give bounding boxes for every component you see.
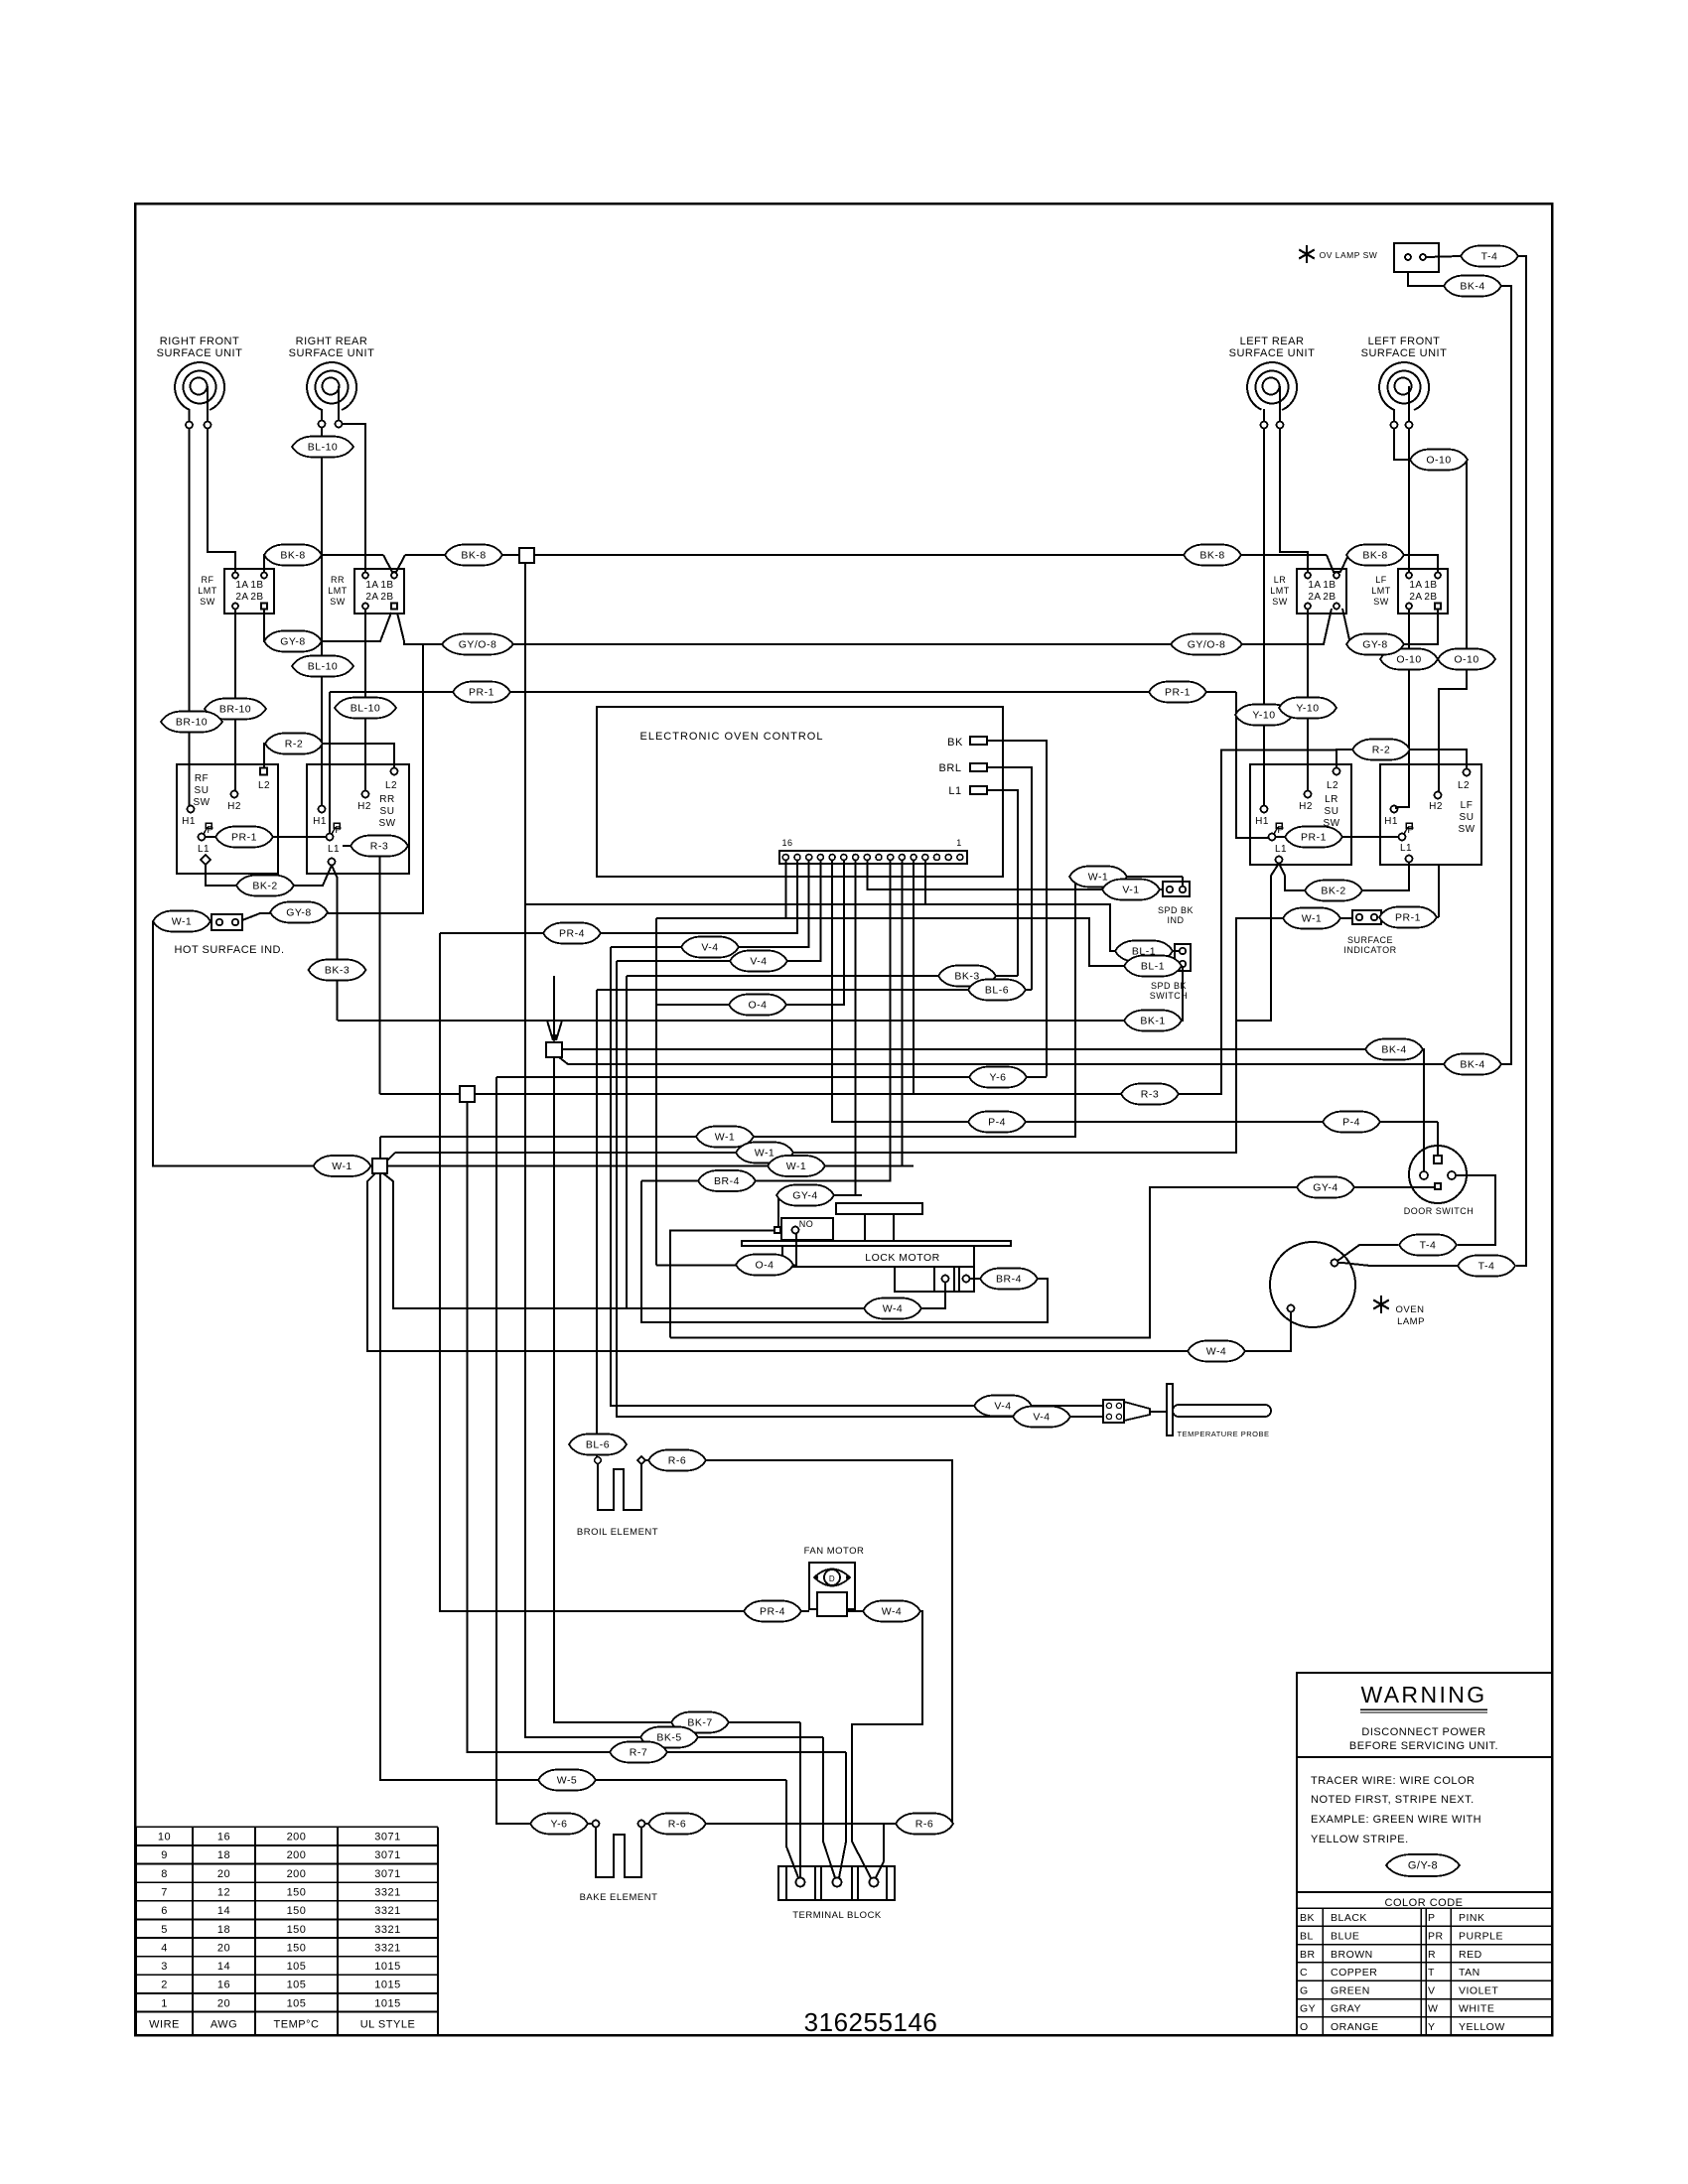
svg-text:3: 3 bbox=[161, 1961, 168, 1973]
svg-text:1B: 1B bbox=[1424, 580, 1437, 591]
wire bbox=[263, 743, 265, 746]
wire BRL pad to BL-6 broil bbox=[987, 767, 1032, 990]
svg-text:9: 9 bbox=[161, 1849, 168, 1861]
svg-text:W-4: W-4 bbox=[882, 1606, 903, 1618]
svg-text:1015: 1015 bbox=[374, 1961, 400, 1973]
svg-text:GY/O-8: GY/O-8 bbox=[459, 639, 497, 651]
wire diagonal into junction J2 bbox=[547, 1021, 553, 1040]
wire BL-1 from bus bbox=[525, 904, 1179, 951]
svg-text:BLUE: BLUE bbox=[1331, 1930, 1359, 1942]
svg-text:W-1: W-1 bbox=[755, 1148, 775, 1160]
wire label BL-10 bbox=[292, 437, 353, 458]
svg-text:SU: SU bbox=[380, 806, 395, 817]
svg-text:TAN: TAN bbox=[1459, 1967, 1480, 1979]
wire pin 11 O-4 bbox=[656, 861, 844, 1006]
wire BL-6 to broil element bbox=[597, 990, 598, 1456]
svg-text:RR: RR bbox=[379, 794, 394, 805]
wire BK-4 drop to door switch bbox=[1423, 1049, 1424, 1170]
wire pin W-1 bbox=[901, 861, 903, 1166]
svg-text:P: P bbox=[1277, 825, 1284, 836]
wire V-4 to temperature probe bbox=[611, 947, 1103, 1406]
wire W-4 to lock motor bbox=[383, 1173, 945, 1308]
wire label GY/O-8 bbox=[1171, 634, 1242, 655]
svg-text:BK-2: BK-2 bbox=[1321, 886, 1345, 897]
wire bbox=[1404, 827, 1408, 834]
svg-text:GY-8: GY-8 bbox=[1362, 639, 1388, 651]
wire label BK-5 bbox=[640, 1727, 698, 1748]
EOC 16-pin connector strip bbox=[779, 838, 967, 864]
fan motor B1 bbox=[804, 1546, 865, 1616]
wire bbox=[254, 1827, 256, 2035]
svg-text:2: 2 bbox=[161, 1979, 168, 1991]
svg-text:RIGHT REAR: RIGHT REAR bbox=[296, 336, 368, 347]
wire label W-1 bbox=[736, 1143, 793, 1163]
svg-text:TEMPERATURE PROBE: TEMPERATURE PROBE bbox=[1178, 1430, 1270, 1438]
wire BK-1 to SPD BK switch bbox=[338, 968, 1183, 1022]
svg-text:1: 1 bbox=[956, 838, 962, 848]
svg-text:BL-10: BL-10 bbox=[308, 442, 339, 454]
svg-text:LAMP: LAMP bbox=[1397, 1316, 1425, 1327]
svg-text:W-1: W-1 bbox=[332, 1160, 352, 1172]
svg-text:W-5: W-5 bbox=[557, 1775, 578, 1787]
wire label W-1 bbox=[1069, 867, 1127, 887]
junction J2 (black) bbox=[546, 1042, 562, 1057]
broil element bbox=[577, 1456, 658, 1538]
wire label BR-4 bbox=[980, 1269, 1038, 1290]
svg-text:L2: L2 bbox=[258, 780, 270, 791]
svg-text:BK-5: BK-5 bbox=[656, 1732, 681, 1744]
svg-text:L1: L1 bbox=[1275, 844, 1287, 855]
svg-text:RF: RF bbox=[195, 773, 209, 784]
wire bbox=[1297, 1756, 1552, 1758]
svg-text:3321: 3321 bbox=[374, 1887, 400, 1899]
svg-text:SURFACE UNIT: SURFACE UNIT bbox=[1229, 347, 1316, 359]
wire label W-4 bbox=[863, 1601, 920, 1622]
wire label V-1 bbox=[1102, 880, 1160, 900]
wire R-7 into terminal 2 bbox=[839, 1752, 846, 1878]
svg-text:PR-1: PR-1 bbox=[1395, 912, 1421, 924]
wire bbox=[136, 1919, 438, 1921]
svg-text:BK-3: BK-3 bbox=[954, 971, 979, 983]
surface unit coil RR bbox=[289, 336, 375, 410]
svg-text:18: 18 bbox=[217, 1849, 230, 1861]
wire label P-4 bbox=[968, 1112, 1026, 1133]
wire label P-4 bbox=[1323, 1112, 1380, 1133]
wire BK-7 drop bbox=[799, 1722, 801, 1877]
svg-text:R-3: R-3 bbox=[1141, 1089, 1159, 1101]
wire label BR-10 bbox=[161, 712, 222, 733]
wire label W-5 bbox=[538, 1770, 596, 1791]
wire BK-3 RR L1 down bbox=[332, 866, 338, 1022]
wire P-4 into door switch bbox=[1437, 1122, 1439, 1155]
wire BR-4 lock motor loop bbox=[641, 1181, 1048, 1323]
lock motor assembly bbox=[742, 1203, 1011, 1292]
wire BK-4 to oven lamp switch loop bbox=[559, 1057, 1444, 1064]
wire bbox=[864, 1214, 866, 1241]
wire label GY/O-8 bbox=[442, 634, 513, 655]
svg-text:R-6: R-6 bbox=[668, 1455, 686, 1467]
wire bbox=[953, 1267, 955, 1292]
wire bbox=[136, 1844, 438, 1846]
wire BK-7 from junction to terminal block bbox=[554, 1057, 800, 1722]
wire label BK-4 bbox=[1365, 1039, 1423, 1060]
wire gauge table bbox=[136, 1827, 438, 2035]
wire label W-1 bbox=[696, 1127, 754, 1148]
svg-text:105: 105 bbox=[287, 1979, 307, 1991]
svg-text:BK-8: BK-8 bbox=[1199, 550, 1224, 562]
wire Y-6 bus bbox=[496, 1076, 1047, 1078]
surface unit coil RF bbox=[157, 336, 243, 410]
svg-text:1A: 1A bbox=[1308, 580, 1321, 591]
svg-text:COLOR CODE: COLOR CODE bbox=[1385, 1897, 1464, 1909]
svg-text:200: 200 bbox=[287, 1849, 307, 1861]
svg-text:LMT: LMT bbox=[328, 586, 348, 596]
svg-text:L1: L1 bbox=[948, 785, 961, 797]
svg-text:1B: 1B bbox=[380, 580, 393, 591]
wire R-2 LR L2 to LF L2 bbox=[1336, 750, 1467, 769]
wire label BK-8 bbox=[1184, 545, 1241, 566]
svg-text:2A: 2A bbox=[1409, 592, 1422, 603]
wire LR unit left terminal to H1 bbox=[1263, 429, 1265, 806]
svg-text:SPD BK: SPD BK bbox=[1158, 905, 1194, 915]
wire label GY-8 bbox=[270, 902, 328, 923]
wire O-4 to lock NO switch bbox=[656, 1234, 796, 1266]
svg-text:Y: Y bbox=[1428, 2021, 1436, 2033]
wire bus riser bbox=[655, 918, 657, 1266]
wire W-4 to oven lamp bbox=[367, 1173, 1291, 1351]
svg-text:DOOR SWITCH: DOOR SWITCH bbox=[1404, 1206, 1475, 1216]
wire bbox=[1297, 1891, 1552, 1893]
wire bbox=[136, 2011, 438, 2013]
wire BK-2 LR L1 to LF L1 bbox=[1279, 863, 1409, 891]
svg-text:NOTED FIRST, STRIPE NEXT.: NOTED FIRST, STRIPE NEXT. bbox=[1311, 1794, 1475, 1806]
surface indicator bbox=[1343, 910, 1396, 955]
wire label BL-1 bbox=[1124, 956, 1182, 977]
svg-text:L2: L2 bbox=[1458, 780, 1470, 791]
svg-text:H2: H2 bbox=[357, 801, 371, 812]
wire bbox=[192, 1827, 194, 2035]
wire label O-4 bbox=[736, 1255, 793, 1276]
wire GY-8 RF LMT 2B to RR LMT 2B bbox=[264, 610, 391, 642]
svg-text:SURFACE: SURFACE bbox=[1347, 935, 1393, 945]
svg-text:L1: L1 bbox=[198, 844, 210, 855]
junction J3 (red) bbox=[460, 1086, 475, 1102]
surface unit switch LR SU SW bbox=[1250, 764, 1351, 865]
wire W-1 into SPD BK IND bbox=[1182, 877, 1184, 887]
wire label R-7 bbox=[610, 1742, 667, 1763]
svg-text:H1: H1 bbox=[182, 816, 196, 827]
wire label W-1 bbox=[314, 1156, 371, 1176]
junction J4 (white) bbox=[372, 1159, 387, 1173]
wire bbox=[1297, 2034, 1552, 2036]
svg-text:OVEN: OVEN bbox=[1396, 1304, 1425, 1315]
svg-text:BK-4: BK-4 bbox=[1381, 1044, 1406, 1056]
svg-text:3071: 3071 bbox=[374, 1849, 400, 1861]
svg-text:1A: 1A bbox=[235, 580, 248, 591]
svg-text:LEFT REAR: LEFT REAR bbox=[1240, 336, 1305, 347]
surface unit coil LR bbox=[1229, 336, 1316, 410]
wire bbox=[893, 1214, 895, 1241]
svg-text:10: 10 bbox=[158, 1832, 171, 1843]
svg-text:200: 200 bbox=[287, 1868, 307, 1880]
svg-text:BL: BL bbox=[1300, 1930, 1314, 1942]
wire label PR-4 bbox=[744, 1601, 801, 1622]
wire T-4 right riser bbox=[1516, 256, 1526, 1266]
wire LR unit right terminal to LMT 1A bbox=[1280, 429, 1308, 573]
wire bbox=[1297, 1962, 1552, 1964]
wire pin 13 V-4 bbox=[617, 861, 820, 962]
svg-text:D: D bbox=[829, 1574, 835, 1583]
svg-text:2B: 2B bbox=[380, 592, 393, 603]
wire label BK-4 bbox=[1444, 276, 1501, 297]
wire label BK-7 bbox=[671, 1712, 729, 1733]
wire R-3 bus to R-2 bbox=[380, 751, 1337, 1095]
wire LR L1 to surface indicator W-1 bbox=[1236, 864, 1290, 1022]
svg-text:1A: 1A bbox=[1409, 580, 1422, 591]
wire pin 10 GY-4 bbox=[855, 861, 857, 1196]
wire label O-10 bbox=[1380, 649, 1438, 670]
svg-text:BL-6: BL-6 bbox=[586, 1439, 610, 1451]
limit switch RR LMT SW bbox=[328, 569, 404, 614]
wire W-1 no3 bus bbox=[387, 1165, 796, 1167]
wire bbox=[136, 1974, 438, 1976]
svg-text:PR-1: PR-1 bbox=[1165, 687, 1191, 699]
wire label BK-2 bbox=[1305, 881, 1362, 901]
wire PR-1 bus bbox=[330, 691, 1236, 693]
svg-text:H2: H2 bbox=[1429, 801, 1443, 812]
svg-text:BK-8: BK-8 bbox=[1362, 550, 1387, 562]
wire bbox=[337, 1827, 339, 2035]
wire label V-4 bbox=[730, 951, 787, 972]
wire bbox=[1322, 1908, 1324, 2035]
svg-text:C: C bbox=[1300, 1967, 1308, 1979]
svg-text:SW: SW bbox=[1272, 597, 1288, 607]
svg-text:SU: SU bbox=[195, 785, 210, 796]
wire bbox=[207, 386, 209, 421]
wire BK-8 dip into RR LMT 1B bbox=[383, 555, 405, 572]
svg-text:SURFACE UNIT: SURFACE UNIT bbox=[157, 347, 243, 359]
svg-text:SW: SW bbox=[378, 818, 395, 829]
svg-text:BK-4: BK-4 bbox=[1460, 1059, 1484, 1071]
svg-text:TRACER WIRE: WIRE COLOR: TRACER WIRE: WIRE COLOR bbox=[1311, 1775, 1476, 1787]
svg-text:EXAMPLE: GREEN WIRE WITH: EXAMPLE: GREEN WIRE WITH bbox=[1311, 1814, 1481, 1826]
wire into junction J2 bbox=[553, 976, 555, 1040]
wire label BK-1 bbox=[1124, 1011, 1182, 1031]
svg-text:O-10: O-10 bbox=[1426, 455, 1451, 467]
wire label PR-1 bbox=[1285, 827, 1342, 848]
wire bbox=[136, 1900, 438, 1902]
svg-text:20: 20 bbox=[217, 1868, 230, 1880]
svg-text:LMT: LMT bbox=[198, 586, 217, 596]
wire bbox=[820, 1866, 822, 1900]
svg-text:LEFT FRONT: LEFT FRONT bbox=[1368, 336, 1441, 347]
svg-text:TEMP°C: TEMP°C bbox=[274, 2019, 320, 2031]
wire bbox=[136, 1881, 438, 1883]
svg-text:PR: PR bbox=[1428, 1930, 1444, 1942]
svg-text:BK-4: BK-4 bbox=[1460, 281, 1484, 293]
electronic oven control U1 bbox=[597, 707, 1003, 877]
svg-text:1015: 1015 bbox=[374, 1979, 400, 1991]
svg-text:16: 16 bbox=[217, 1979, 230, 1991]
svg-text:LR: LR bbox=[1274, 575, 1287, 585]
wire bbox=[796, 1165, 914, 1167]
wire LF LMT 2A to H1 bbox=[1396, 610, 1409, 810]
wire bbox=[1297, 2016, 1552, 2018]
wire pin 14 V-4 bbox=[611, 861, 809, 948]
svg-text:18: 18 bbox=[217, 1924, 230, 1936]
wire pin 15 PR-4 bbox=[440, 861, 797, 934]
wire bbox=[338, 386, 340, 420]
wire W-1 hot surface ind bbox=[153, 920, 211, 922]
svg-text:BK-8: BK-8 bbox=[280, 550, 305, 562]
wire label O-4 bbox=[729, 995, 786, 1016]
wire PR-1 bus drop to LR P bbox=[1236, 692, 1268, 838]
wire label Y-6 bbox=[969, 1067, 1027, 1088]
svg-text:PR-1: PR-1 bbox=[1301, 832, 1327, 844]
svg-text:2B: 2B bbox=[1323, 592, 1336, 603]
svg-text:GY-4: GY-4 bbox=[792, 1190, 818, 1202]
wire label G/Y-8 bbox=[1386, 1854, 1460, 1876]
wire LF unit left terminal via O-10 to H2 bbox=[1394, 429, 1467, 792]
svg-text:V-4: V-4 bbox=[994, 1401, 1011, 1413]
svg-text:1B: 1B bbox=[250, 580, 263, 591]
svg-text:GREEN: GREEN bbox=[1331, 1984, 1370, 1996]
wire label V-4 bbox=[1013, 1407, 1070, 1428]
svg-text:GRAY: GRAY bbox=[1331, 2003, 1361, 2015]
wire bbox=[437, 1827, 439, 2035]
svg-text:RIGHT FRONT: RIGHT FRONT bbox=[160, 336, 239, 347]
wire pin 12 P-4 to door switch bbox=[832, 861, 1434, 1123]
wire bbox=[777, 1195, 779, 1227]
svg-text:BR-10: BR-10 bbox=[219, 704, 251, 716]
wire label BK-8 bbox=[1346, 545, 1404, 566]
svg-text:T: T bbox=[1428, 1967, 1435, 1979]
svg-text:H2: H2 bbox=[1299, 801, 1313, 812]
svg-text:2A: 2A bbox=[1308, 592, 1321, 603]
svg-text:P: P bbox=[1428, 1912, 1436, 1924]
svg-text:P: P bbox=[335, 825, 342, 836]
svg-text:GY-8: GY-8 bbox=[286, 907, 312, 919]
svg-text:BK: BK bbox=[947, 737, 963, 749]
wire bbox=[136, 1937, 438, 1939]
svg-text:BR-4: BR-4 bbox=[714, 1175, 740, 1187]
svg-text:H1: H1 bbox=[313, 816, 327, 827]
limit switch LR LMT SW bbox=[1270, 569, 1346, 614]
wire BK-8 bus bbox=[405, 554, 519, 556]
svg-text:1A: 1A bbox=[365, 580, 378, 591]
wire label O-10 bbox=[1438, 649, 1495, 670]
svg-text:V-1: V-1 bbox=[1122, 885, 1139, 896]
wire bbox=[136, 1863, 438, 1865]
wire label R-6 bbox=[896, 1814, 953, 1835]
wire label R-3 bbox=[351, 836, 408, 857]
svg-text:R-6: R-6 bbox=[668, 1819, 686, 1831]
svg-text:1015: 1015 bbox=[374, 1997, 400, 2009]
wire bbox=[1297, 1925, 1552, 1927]
svg-text:R: R bbox=[1428, 1949, 1436, 1961]
svg-text:SU: SU bbox=[1325, 806, 1339, 817]
svg-text:V: V bbox=[1428, 1984, 1436, 1996]
svg-text:GY-8: GY-8 bbox=[280, 636, 306, 648]
svg-text:P-4: P-4 bbox=[1342, 1117, 1360, 1129]
wire L1 pad to BK-3 bbox=[987, 790, 1018, 976]
svg-text:TERMINAL BLOCK: TERMINAL BLOCK bbox=[792, 1910, 882, 1921]
svg-text:Y-10: Y-10 bbox=[1252, 710, 1275, 722]
wire label R-6 bbox=[648, 1814, 706, 1835]
wire label BK-2 bbox=[236, 876, 294, 896]
svg-text:NO: NO bbox=[799, 1219, 814, 1229]
svg-text:YELLOW: YELLOW bbox=[1459, 2021, 1505, 2033]
wire BK-2 RF L1 to RR L1 bbox=[206, 864, 332, 887]
svg-text:W-1: W-1 bbox=[1302, 913, 1323, 925]
wire BK-8 bus bbox=[534, 554, 1327, 556]
svg-text:316255146: 316255146 bbox=[804, 2007, 938, 2037]
svg-text:LMT: LMT bbox=[1270, 586, 1290, 596]
svg-text:VIOLET: VIOLET bbox=[1459, 1984, 1498, 1996]
svg-text:H2: H2 bbox=[227, 801, 241, 812]
wire label W-4 bbox=[864, 1298, 921, 1319]
wire RF LMT 2A to H2 bbox=[234, 610, 236, 791]
wire pin BR-4 bbox=[641, 861, 891, 1181]
wire BK-4 to OV LAMP SW bbox=[1408, 273, 1444, 286]
wire R-6 into terminal 3 bbox=[876, 1824, 952, 1878]
wire label R-6 bbox=[648, 1450, 706, 1471]
wire bbox=[204, 827, 208, 834]
svg-text:BR-10: BR-10 bbox=[176, 717, 208, 729]
svg-text:L2: L2 bbox=[385, 780, 397, 791]
svg-text:T-4: T-4 bbox=[1481, 251, 1498, 263]
wire bbox=[387, 1153, 395, 1160]
svg-text:SW: SW bbox=[1458, 824, 1475, 835]
svg-text:Y-6: Y-6 bbox=[551, 1819, 568, 1831]
wire W-5 to terminal block bbox=[380, 1173, 786, 1780]
limit switch LF LMT SW bbox=[1371, 569, 1448, 614]
svg-text:ELECTRONIC OVEN CONTROL: ELECTRONIC OVEN CONTROL bbox=[640, 731, 824, 743]
wire R-6 bake element bbox=[645, 1823, 884, 1825]
svg-text:WIRE: WIRE bbox=[149, 2019, 180, 2031]
hot surface indicator bbox=[174, 914, 284, 956]
wire bbox=[1297, 1979, 1552, 1981]
svg-text:IND: IND bbox=[1168, 915, 1185, 925]
wire label BL-10 bbox=[292, 656, 353, 677]
svg-text:16: 16 bbox=[217, 1832, 230, 1843]
wire W-5 into terminal 1 bbox=[786, 1780, 798, 1878]
svg-text:L1: L1 bbox=[1400, 843, 1412, 854]
wire LF unit right terminal to LMT 1A bbox=[1408, 429, 1410, 573]
svg-text:2A: 2A bbox=[235, 592, 248, 603]
svg-text:O-4: O-4 bbox=[748, 1000, 767, 1012]
wire label T-4 bbox=[1461, 246, 1518, 267]
svg-text:V-4: V-4 bbox=[750, 956, 767, 968]
svg-text:R-6: R-6 bbox=[915, 1819, 933, 1831]
svg-text:SW: SW bbox=[193, 797, 210, 808]
svg-text:20: 20 bbox=[217, 1942, 230, 1954]
wire label BR-4 bbox=[698, 1170, 756, 1191]
wire label R-2 bbox=[265, 734, 323, 754]
wire bbox=[1263, 409, 1265, 421]
wire label BK-4 bbox=[1444, 1054, 1501, 1075]
svg-text:G/Y-8: G/Y-8 bbox=[1408, 1860, 1438, 1872]
wire GY-4 to lock NO switch bbox=[778, 1194, 862, 1196]
svg-text:W-1: W-1 bbox=[715, 1132, 736, 1144]
wire label Y-10 bbox=[1235, 705, 1293, 726]
svg-text:COPPER: COPPER bbox=[1331, 1967, 1377, 1979]
wire label BR-10 bbox=[205, 699, 266, 720]
svg-text:V-4: V-4 bbox=[1033, 1412, 1050, 1424]
wire bbox=[1450, 1908, 1452, 2035]
svg-text:R-2: R-2 bbox=[1372, 745, 1390, 756]
wire bbox=[886, 1866, 888, 1900]
